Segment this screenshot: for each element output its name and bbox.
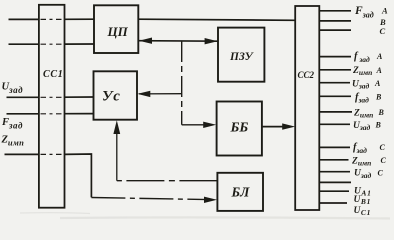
svg-text:В: В [375,93,382,102]
arrowhead into ПЗУ (right) [205,38,218,44]
block CC2 (СС2) [295,6,319,210]
wire L5 (Z имп) left input [5,153,39,155]
wire СС2 output Z имп B [319,111,352,113]
wire СС2 output f зад A [319,56,351,58]
wire L3 (U зад) left input [7,96,39,98]
wire СС2 output C [319,29,351,31]
svg-text:С: С [381,156,387,165]
svg-text:СС1: СС1 [43,69,63,80]
svg-text:UВ1: UВ1 [354,195,372,206]
wire СС2 output U A1 [319,181,351,183]
wire СС2 output Z имп A [319,69,351,71]
svg-text:В: В [375,121,382,130]
svg-text:Zимп: Zимп [1,135,25,148]
svg-text:UС1: UС1 [354,206,372,217]
svg-text:Uзад: Uзад [353,121,371,132]
svg-text:ПЗУ: ПЗУ [229,51,255,63]
wire vertical bus from ЦП-ПЗУ line down [181,41,183,125]
svg-text:ББ: ББ [230,121,249,136]
wire L5 horizontal dash-dot to БЛ [91,198,208,200]
wire СС2 output U зад A [319,82,350,84]
svg-text:БЛ: БЛ [231,185,251,200]
svg-text:А: А [376,66,383,75]
svg-text:А: А [376,52,383,61]
wire ББ right to СС2 [262,126,286,128]
svg-text:Zимп: Zимп [352,66,372,77]
block ББ [217,102,262,156]
wire L4 from СС1 to УС [65,113,94,115]
wire СС2 output U зад C [319,171,350,173]
svg-text:В: В [378,108,385,117]
wire L2 left input [9,43,39,45]
wire bidirectional bus ЦП-ПЗУ [139,40,218,43]
wire L5 from СС1 right, corner down [65,154,92,197]
wire L3 from СС1 to УС [65,96,94,98]
svg-text:Ус: Ус [102,89,121,105]
block БЛ [217,173,263,211]
wire СС2 output f зад B [319,95,351,97]
svg-text:A: A [381,6,388,16]
wire СС2 output U зад B [319,123,350,125]
block CC1 (СС1) [39,5,65,208]
svg-text:Uзад: Uзад [352,79,370,90]
svg-text:Uзад: Uзад [354,169,372,180]
wire L4 dashes inside СС1 [41,113,64,115]
wire СС2 output U B1 [319,190,349,192]
wire L1 dashes inside СС1 [41,18,64,20]
wire L2 from СС1 to ЦП [65,43,95,45]
wire vertical БЛ-УС [116,129,118,181]
wire bus tap to УС [139,93,182,95]
wire L1 left input to ЦП [9,18,39,20]
arrowhead into ЦП (left) [139,38,152,44]
block УС [94,71,138,119]
wire СС2 output B [319,20,351,22]
wire L4 left input [7,113,39,115]
wire L2 dashes inside СС1 [41,43,64,45]
faint scan smudge bottom [20,213,390,219]
svg-text:СС2: СС2 [298,70,315,80]
block ПЗУ (ROM) [218,28,264,82]
wire bus corner to ББ [182,124,207,126]
svg-text:C: C [380,26,386,36]
svg-text:ЦП: ЦП [107,24,129,39]
svg-text:Zимп: Zимп [351,156,371,167]
arrowhead into УС right [137,91,150,97]
wire СС2 output U C1 [319,202,347,204]
wire L1 from СС1 to ЦП [65,18,95,20]
arrowhead into ББ left [203,122,216,128]
wire L5 dashes inside СС1 [41,153,64,155]
wire СС2 output F зад A [319,10,351,12]
svg-text:С: С [378,168,384,177]
arrowhead into БЛ lower input [204,197,217,203]
wire БЛ left up to УС bottom [117,180,218,182]
wire ЦП right to СС2 [138,19,295,20]
arrowhead into СС2 from ББ [282,123,295,129]
wire L3 dashes inside СС1 [41,96,64,98]
svg-text:Zимп: Zимп [353,108,373,119]
wire СС2 output Z имп C [319,159,348,161]
svg-text:С: С [380,143,386,152]
arrowhead up into УС bottom [113,120,120,134]
block ЦП (CPU) [94,5,138,53]
svg-text:А: А [374,79,381,88]
wire СС2 output f зад C [319,146,350,148]
